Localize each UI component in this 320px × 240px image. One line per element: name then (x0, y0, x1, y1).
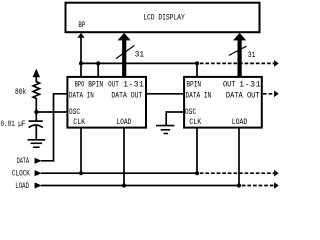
arrowhead CLOCK dashed (274, 170, 279, 177)
arrowhead BP into LCD (77, 33, 84, 38)
IC U1 left LCD driver box (67, 77, 146, 128)
wire BP vertical from LCD (80, 37, 82, 63)
wire DATA up to DATA IN (41, 94, 67, 161)
wire CLK pin right chip (196, 128, 198, 174)
wire OSC to left chip (36, 111, 67, 113)
wire CLOCK line (41, 172, 197, 174)
arrowhead DATA input (35, 158, 42, 164)
node junction BPIN left (96, 61, 100, 65)
arrowhead BP dashed (274, 60, 279, 67)
arrowhead CLOCK input (35, 170, 42, 176)
node CLK left junction (79, 171, 83, 175)
node LOAD left junction (122, 183, 126, 187)
svg-text:0.01 µF: 0.01 µF (1, 120, 26, 129)
svg-text:LOAD: LOAD (116, 118, 131, 127)
bus slash right (229, 46, 247, 55)
svg-text:BPIN: BPIN (186, 80, 201, 89)
svg-text:31: 31 (135, 50, 145, 59)
svg-text:DATA IN: DATA IN (69, 91, 94, 100)
svg-text:CLK: CLK (73, 118, 85, 127)
wire BP horizontal bus (81, 62, 197, 64)
svg-text:LCD DISPLAY: LCD DISPLAY (143, 13, 185, 22)
bus arrow OUT 1-31 left chip to LCD (118, 33, 131, 77)
svg-text:LOAD: LOAD (232, 118, 248, 127)
svg-text:CLK: CLK (189, 118, 201, 127)
wire OSC right chip to ground (166, 112, 184, 126)
svg-text:OUT: OUT (108, 80, 119, 89)
arrowhead LOAD input (35, 182, 42, 188)
wire CLK pin left chip (80, 128, 82, 174)
LCD display box (66, 3, 260, 33)
svg-text:BPO: BPO (75, 80, 85, 89)
svg-text:DATA: DATA (17, 157, 29, 166)
bus arrow OUT 1-31 right chip to LCD (233, 33, 246, 77)
node junction BP-BPO (79, 61, 83, 65)
bus slash left (116, 45, 134, 58)
wire DATA OUT left chip to DATA IN right chip (146, 93, 184, 95)
node OSC junction (34, 110, 38, 114)
ground below capacitor (28, 140, 46, 147)
svg-text:DATA IN: DATA IN (186, 91, 212, 100)
svg-text:DATA OUT: DATA OUT (111, 91, 142, 100)
svg-text:OSC: OSC (185, 108, 196, 117)
svg-text:CLOCK: CLOCK (12, 170, 30, 179)
svg-text:1-31: 1-31 (123, 80, 144, 89)
wire CLOCK dashed continuation (200, 172, 274, 174)
wire BPIN pin right chip (196, 63, 198, 77)
svg-text:80k: 80k (15, 87, 26, 97)
svg-text:BPIN: BPIN (88, 80, 103, 89)
resistor R1 80k with V+ arrow (33, 69, 41, 112)
svg-text:OUT: OUT (223, 80, 235, 89)
capacitor C1 0.01uF (29, 112, 43, 140)
wire LOAD pin left chip (123, 128, 125, 186)
arrowhead LOAD dashed (274, 182, 279, 189)
node junction BPIN right (195, 61, 199, 65)
wire BPIN pin left chip (97, 63, 99, 77)
arrowhead DATA OUT dashed (274, 91, 279, 98)
svg-text:BP: BP (78, 21, 85, 30)
svg-text:DATA OUT: DATA OUT (226, 91, 260, 100)
ground right chip OSC (156, 126, 174, 134)
wire BPO pin left chip (80, 63, 82, 77)
wire LOAD dashed continuation (242, 185, 274, 187)
IC U2 right LCD driver box (184, 77, 262, 128)
wire LOAD line (41, 185, 239, 187)
svg-text:OSC: OSC (69, 108, 80, 117)
svg-text:31: 31 (248, 51, 256, 60)
wire LOAD pin right chip (238, 128, 240, 186)
wire DATA OUT dashed right chip (263, 93, 274, 95)
node CLK right junction (195, 171, 199, 175)
wire BP dashed to right (200, 62, 274, 64)
node LOAD right junction (237, 183, 241, 187)
svg-text:1-31: 1-31 (239, 80, 260, 89)
svg-text:LOAD: LOAD (15, 182, 29, 190)
